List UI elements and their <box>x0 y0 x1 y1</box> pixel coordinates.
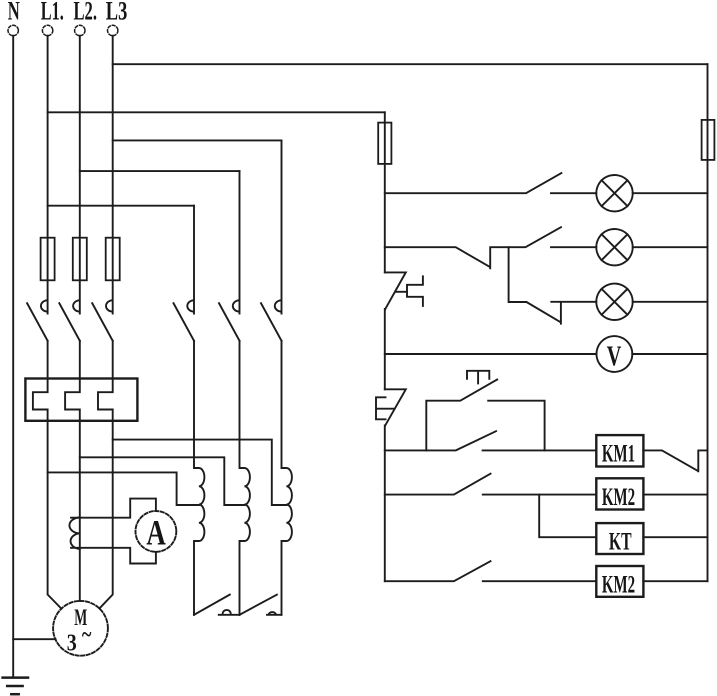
svg-text:L2.: L2. <box>74 0 98 26</box>
svg-text:L1.: L1. <box>41 0 64 26</box>
svg-text:N: N <box>8 0 20 26</box>
svg-text:3: 3 <box>67 631 77 657</box>
svg-text:V: V <box>607 341 622 373</box>
svg-text:~: ~ <box>82 622 92 648</box>
svg-text:KM1: KM1 <box>602 441 635 468</box>
svg-text:A: A <box>146 513 165 553</box>
svg-text:KT: KT <box>609 529 632 556</box>
svg-text:KM2: KM2 <box>602 484 635 511</box>
svg-text:KM2: KM2 <box>602 571 635 598</box>
svg-text:L3: L3 <box>106 0 128 26</box>
